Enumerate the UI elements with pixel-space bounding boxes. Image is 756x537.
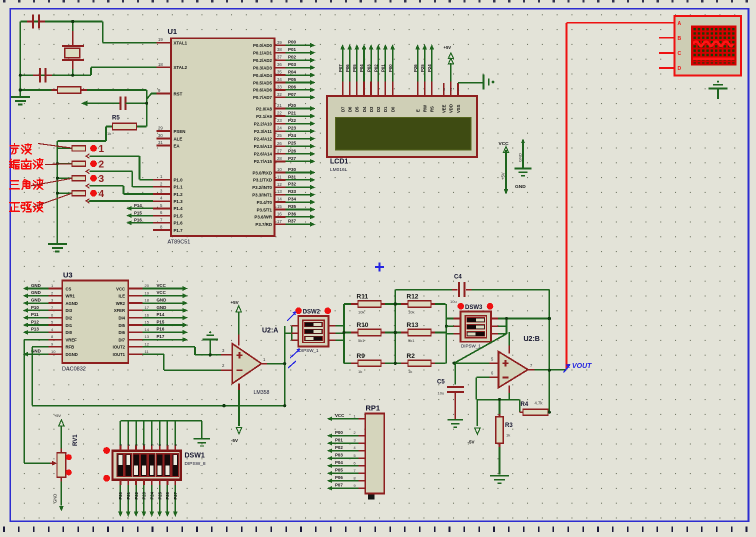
svg-text:C5: C5 bbox=[437, 380, 445, 386]
svg-text:13: 13 bbox=[277, 189, 282, 194]
svg-text:EA: EA bbox=[174, 143, 181, 148]
svg-text:P1.1: P1.1 bbox=[174, 185, 184, 190]
svg-text:+5V: +5V bbox=[231, 300, 239, 305]
svg-text:15: 15 bbox=[145, 320, 150, 325]
svg-text:P06: P06 bbox=[335, 475, 343, 480]
svg-text:AGND: AGND bbox=[66, 301, 78, 306]
svg-text:P2.4/A12: P2.4/A12 bbox=[254, 137, 273, 142]
svg-text:VCC: VCC bbox=[335, 413, 345, 418]
svg-text:P3.6/WR: P3.6/WR bbox=[254, 215, 272, 220]
svg-text:10: 10 bbox=[51, 349, 56, 354]
svg-text:U2:A: U2:A bbox=[262, 328, 278, 335]
svg-text:DSW3: DSW3 bbox=[465, 305, 483, 311]
svg-text:3: 3 bbox=[135, 444, 139, 446]
svg-text:39: 39 bbox=[277, 40, 282, 45]
svg-text:D: D bbox=[678, 66, 682, 72]
svg-text:10k: 10k bbox=[358, 310, 364, 315]
svg-text:P22: P22 bbox=[134, 491, 139, 499]
svg-text:12: 12 bbox=[277, 182, 282, 187]
svg-text:D7: D7 bbox=[340, 106, 345, 112]
svg-text:VCC: VCC bbox=[116, 286, 125, 291]
svg-text:6: 6 bbox=[158, 444, 162, 446]
svg-text:1k: 1k bbox=[358, 369, 362, 374]
svg-text:VCC: VCC bbox=[157, 290, 167, 295]
svg-text:DI4: DI4 bbox=[118, 316, 125, 321]
svg-text:GND: GND bbox=[31, 298, 41, 303]
svg-text:RS: RS bbox=[430, 106, 435, 112]
svg-text:XTAL2: XTAL2 bbox=[174, 65, 188, 70]
svg-text:16: 16 bbox=[277, 211, 282, 216]
svg-text:P2.6/A14: P2.6/A14 bbox=[254, 152, 273, 157]
svg-text:P15: P15 bbox=[157, 319, 165, 324]
svg-text:P04: P04 bbox=[359, 64, 364, 72]
svg-text:WR2: WR2 bbox=[116, 301, 126, 306]
svg-text:13: 13 bbox=[145, 334, 150, 339]
svg-text:8: 8 bbox=[354, 476, 356, 480]
svg-text:P10: P10 bbox=[31, 305, 39, 310]
svg-text:P02: P02 bbox=[335, 445, 343, 450]
svg-text:24: 24 bbox=[277, 126, 282, 131]
svg-text:P2.1/A9: P2.1/A9 bbox=[256, 114, 272, 119]
svg-text:P16: P16 bbox=[157, 327, 165, 332]
svg-text:DIPSW_1: DIPSW_1 bbox=[299, 348, 319, 353]
svg-text:P15: P15 bbox=[134, 210, 142, 215]
svg-text:DSW1: DSW1 bbox=[185, 453, 205, 460]
svg-text:GND: GND bbox=[157, 298, 167, 303]
svg-text:P04: P04 bbox=[335, 460, 343, 465]
svg-text:14: 14 bbox=[277, 197, 282, 202]
svg-text:R10: R10 bbox=[357, 322, 369, 329]
svg-text:P02: P02 bbox=[288, 55, 297, 60]
svg-text:P3.4/T0: P3.4/T0 bbox=[257, 200, 273, 205]
svg-text:R9: R9 bbox=[357, 353, 366, 360]
svg-text:R2: R2 bbox=[407, 353, 416, 360]
svg-text:P3.0/RXD: P3.0/RXD bbox=[252, 170, 272, 175]
svg-text:A: A bbox=[678, 21, 682, 27]
svg-text:P13: P13 bbox=[31, 327, 39, 332]
svg-text:P24: P24 bbox=[150, 491, 155, 499]
svg-text:P3.2/INT0: P3.2/INT0 bbox=[252, 185, 272, 190]
svg-text:E: E bbox=[415, 109, 420, 112]
svg-text:P05: P05 bbox=[335, 468, 343, 473]
svg-text:P2.3/A11: P2.3/A11 bbox=[254, 129, 273, 134]
svg-text:B: B bbox=[678, 36, 682, 42]
svg-text:R11: R11 bbox=[357, 294, 369, 301]
svg-text:P26: P26 bbox=[288, 148, 297, 153]
svg-text:P1.4: P1.4 bbox=[174, 206, 184, 211]
svg-text:P0.0/AD0: P0.0/AD0 bbox=[253, 43, 273, 48]
svg-text:DSW2: DSW2 bbox=[303, 309, 321, 315]
svg-text:P3.5/T1: P3.5/T1 bbox=[257, 207, 273, 212]
svg-text:IOUT2: IOUT2 bbox=[113, 345, 126, 350]
svg-text:23: 23 bbox=[277, 118, 282, 123]
svg-text:30: 30 bbox=[158, 133, 163, 138]
svg-text:3: 3 bbox=[354, 439, 356, 443]
svg-text:P30: P30 bbox=[288, 167, 297, 172]
svg-text:DI2: DI2 bbox=[66, 316, 73, 321]
svg-text:DIPSW_8: DIPSW_8 bbox=[185, 461, 206, 467]
svg-text:D2: D2 bbox=[376, 106, 381, 112]
svg-text:7: 7 bbox=[166, 444, 170, 446]
svg-text:1: 1 bbox=[354, 414, 356, 418]
svg-text:35: 35 bbox=[277, 70, 282, 75]
svg-text:VCC: VCC bbox=[499, 141, 510, 147]
svg-text:R3: R3 bbox=[505, 423, 513, 429]
svg-text:4.7k: 4.7k bbox=[535, 401, 544, 406]
svg-text:VCC: VCC bbox=[157, 283, 167, 288]
svg-text:RST: RST bbox=[174, 91, 183, 96]
svg-text:DI6: DI6 bbox=[118, 330, 125, 335]
svg-text:P34: P34 bbox=[288, 197, 297, 202]
svg-text:36: 36 bbox=[277, 62, 282, 67]
svg-text:P2.5/A13: P2.5/A13 bbox=[254, 144, 273, 149]
svg-text:VDD: VDD bbox=[449, 104, 454, 113]
svg-text:P03: P03 bbox=[366, 64, 371, 72]
svg-text:DI7: DI7 bbox=[118, 337, 125, 342]
svg-text:17: 17 bbox=[277, 219, 282, 224]
svg-text:P25: P25 bbox=[288, 141, 297, 146]
svg-text:4: 4 bbox=[143, 444, 147, 446]
svg-text:+5V: +5V bbox=[54, 413, 61, 418]
svg-text:GND: GND bbox=[53, 494, 58, 503]
svg-text:P0.5/AD5: P0.5/AD5 bbox=[253, 80, 273, 85]
svg-text:32: 32 bbox=[277, 92, 282, 97]
svg-text:P0.7/AD7: P0.7/AD7 bbox=[253, 95, 273, 100]
svg-text:GND: GND bbox=[518, 153, 523, 162]
svg-text:D0: D0 bbox=[390, 106, 395, 112]
svg-text:18: 18 bbox=[145, 298, 150, 303]
svg-text:P20: P20 bbox=[118, 491, 123, 499]
svg-text:P14: P14 bbox=[134, 203, 142, 208]
svg-text:20: 20 bbox=[145, 283, 150, 288]
svg-text:D5: D5 bbox=[355, 106, 360, 112]
svg-text:P07: P07 bbox=[338, 64, 343, 72]
svg-text:38: 38 bbox=[277, 47, 282, 52]
svg-text:DI3: DI3 bbox=[66, 308, 73, 313]
svg-text:VEE: VEE bbox=[442, 104, 447, 113]
svg-text:P22: P22 bbox=[288, 118, 297, 123]
svg-text:1: 1 bbox=[119, 444, 123, 446]
svg-text:P20: P20 bbox=[288, 103, 297, 108]
svg-text:C: C bbox=[678, 51, 682, 57]
svg-text:P0.4/AD4: P0.4/AD4 bbox=[253, 73, 273, 78]
svg-text:XFER: XFER bbox=[114, 308, 125, 313]
svg-text:1k: 1k bbox=[408, 369, 412, 374]
svg-text:VOUT: VOUT bbox=[572, 363, 592, 370]
svg-text:P26: P26 bbox=[165, 491, 170, 499]
svg-text:CS: CS bbox=[66, 286, 72, 291]
svg-text:C4: C4 bbox=[454, 275, 462, 281]
svg-text:-5V: -5V bbox=[231, 438, 238, 443]
svg-text:27: 27 bbox=[277, 148, 282, 153]
svg-text:P32: P32 bbox=[288, 182, 297, 187]
svg-text:DGND: DGND bbox=[66, 352, 78, 357]
svg-text:1: 1 bbox=[458, 88, 460, 92]
svg-text:2: 2 bbox=[354, 431, 356, 435]
svg-text:P23: P23 bbox=[288, 126, 297, 131]
svg-text:GND: GND bbox=[31, 290, 41, 295]
svg-text:12: 12 bbox=[145, 342, 150, 347]
svg-text:31: 31 bbox=[158, 140, 163, 145]
svg-text:R12: R12 bbox=[407, 294, 419, 301]
svg-text:U1: U1 bbox=[168, 27, 178, 36]
svg-text:P02: P02 bbox=[374, 64, 379, 72]
svg-text:15: 15 bbox=[277, 204, 282, 209]
svg-text:P27: P27 bbox=[173, 491, 178, 499]
svg-text:P2.7/A15: P2.7/A15 bbox=[254, 159, 273, 164]
svg-text:P26: P26 bbox=[413, 64, 418, 72]
svg-text:P3.7/RD: P3.7/RD bbox=[255, 222, 272, 227]
svg-text:D3: D3 bbox=[369, 106, 374, 112]
svg-text:P23: P23 bbox=[142, 491, 147, 499]
svg-text:U3: U3 bbox=[63, 271, 73, 280]
svg-text:P11: P11 bbox=[31, 312, 39, 317]
svg-text:AT89C51: AT89C51 bbox=[168, 240, 191, 246]
svg-text:2: 2 bbox=[450, 88, 452, 92]
svg-text:2: 2 bbox=[127, 444, 131, 446]
svg-text:P03: P03 bbox=[288, 62, 297, 67]
svg-text:P27: P27 bbox=[288, 156, 297, 161]
svg-text:P21: P21 bbox=[288, 111, 297, 116]
svg-text:P06: P06 bbox=[345, 64, 350, 72]
svg-text:P24: P24 bbox=[427, 64, 432, 72]
svg-text:P1.7: P1.7 bbox=[174, 228, 184, 233]
svg-text:37: 37 bbox=[277, 55, 282, 60]
svg-text:P00: P00 bbox=[288, 40, 297, 45]
svg-text:P06: P06 bbox=[288, 84, 297, 89]
svg-text:P00: P00 bbox=[335, 430, 343, 435]
svg-text:P14: P14 bbox=[157, 312, 165, 317]
svg-text:17: 17 bbox=[145, 305, 150, 310]
svg-text:22: 22 bbox=[277, 111, 282, 116]
svg-text:34: 34 bbox=[277, 77, 282, 82]
svg-text:P0.3/AD3: P0.3/AD3 bbox=[253, 65, 273, 70]
svg-text:10u: 10u bbox=[450, 299, 457, 304]
svg-text:P01: P01 bbox=[381, 64, 386, 72]
svg-text:DI1: DI1 bbox=[66, 323, 73, 328]
svg-text:4: 4 bbox=[99, 189, 105, 200]
svg-text:P0.2/AD2: P0.2/AD2 bbox=[253, 58, 273, 63]
svg-text:9: 9 bbox=[354, 484, 356, 488]
svg-text:P1.0: P1.0 bbox=[174, 177, 184, 182]
svg-text:P05: P05 bbox=[288, 77, 297, 82]
svg-text:P01: P01 bbox=[288, 47, 297, 52]
svg-text:2: 2 bbox=[99, 160, 105, 171]
svg-text:P1.5: P1.5 bbox=[174, 213, 184, 218]
svg-text:3: 3 bbox=[99, 174, 105, 185]
svg-text:P35: P35 bbox=[288, 204, 297, 209]
svg-text:P1.3: P1.3 bbox=[174, 199, 184, 204]
svg-text:5: 5 bbox=[354, 454, 356, 458]
svg-text:26: 26 bbox=[277, 141, 282, 146]
svg-text:P01: P01 bbox=[335, 437, 343, 442]
svg-text:14: 14 bbox=[145, 327, 150, 332]
svg-text:5k1: 5k1 bbox=[408, 338, 415, 343]
svg-text:P25: P25 bbox=[157, 491, 162, 499]
svg-text:P33: P33 bbox=[288, 189, 297, 194]
svg-text:29: 29 bbox=[158, 126, 163, 131]
svg-text:P31: P31 bbox=[288, 174, 297, 179]
svg-text:P21: P21 bbox=[126, 491, 131, 499]
svg-text:P16: P16 bbox=[134, 218, 142, 223]
svg-text:3: 3 bbox=[443, 88, 445, 92]
svg-text:P05: P05 bbox=[352, 64, 357, 72]
svg-text:VREF: VREF bbox=[66, 337, 78, 342]
svg-text:6: 6 bbox=[354, 461, 356, 465]
svg-text:LM016L: LM016L bbox=[330, 167, 348, 173]
svg-text:P1.2: P1.2 bbox=[174, 192, 184, 197]
svg-text:GND: GND bbox=[31, 283, 41, 288]
svg-text:25: 25 bbox=[277, 133, 282, 138]
svg-text:GND: GND bbox=[515, 184, 526, 190]
svg-text:1k: 1k bbox=[107, 131, 111, 136]
svg-text:P24: P24 bbox=[288, 133, 297, 138]
svg-text:WR1: WR1 bbox=[66, 294, 76, 299]
svg-text:D1: D1 bbox=[383, 106, 388, 112]
svg-text:1k: 1k bbox=[506, 433, 510, 438]
svg-text:28: 28 bbox=[277, 156, 282, 161]
svg-text:21: 21 bbox=[277, 103, 282, 108]
svg-text:U2:B: U2:B bbox=[524, 336, 540, 343]
svg-text:P2.0/A8: P2.0/A8 bbox=[256, 106, 272, 111]
svg-text:P0.1/AD1: P0.1/AD1 bbox=[253, 51, 273, 56]
svg-text:8: 8 bbox=[174, 444, 178, 446]
svg-text:P17: P17 bbox=[157, 334, 165, 339]
svg-text:RP1: RP1 bbox=[366, 404, 381, 413]
svg-text:PSEN: PSEN bbox=[174, 129, 186, 134]
svg-text:RV1: RV1 bbox=[73, 434, 79, 446]
svg-text:P2.2/A10: P2.2/A10 bbox=[254, 121, 273, 126]
svg-text:VSS: VSS bbox=[456, 104, 461, 113]
svg-text:7: 7 bbox=[354, 469, 356, 473]
svg-text:RW: RW bbox=[423, 105, 428, 112]
svg-text:P3.3/INT1: P3.3/INT1 bbox=[252, 193, 272, 198]
svg-text:ILE: ILE bbox=[118, 294, 125, 299]
svg-text:19: 19 bbox=[145, 290, 150, 295]
svg-text:P25: P25 bbox=[420, 64, 425, 72]
svg-text:5k1: 5k1 bbox=[358, 338, 365, 343]
svg-text:P1.6: P1.6 bbox=[174, 221, 184, 226]
svg-text:DI5: DI5 bbox=[118, 323, 125, 328]
svg-text:10k: 10k bbox=[408, 310, 414, 315]
svg-text:5: 5 bbox=[150, 444, 154, 446]
svg-text:+5V: +5V bbox=[444, 45, 452, 50]
svg-text:DAC0832: DAC0832 bbox=[62, 367, 86, 373]
svg-text:33: 33 bbox=[277, 84, 282, 89]
svg-text:DI0: DI0 bbox=[66, 330, 73, 335]
svg-text:DIPSW_1: DIPSW_1 bbox=[461, 343, 481, 348]
svg-text:P03: P03 bbox=[335, 453, 343, 458]
svg-text:R4: R4 bbox=[521, 402, 529, 408]
svg-text:GND: GND bbox=[157, 305, 167, 310]
svg-text:16: 16 bbox=[145, 312, 150, 317]
svg-text:1: 1 bbox=[99, 144, 105, 155]
svg-text:XTAL1: XTAL1 bbox=[174, 41, 188, 46]
svg-text:P04: P04 bbox=[288, 70, 297, 75]
svg-text:4: 4 bbox=[354, 446, 356, 450]
svg-text:P0.6/AD6: P0.6/AD6 bbox=[253, 88, 273, 93]
svg-text:LM358: LM358 bbox=[254, 390, 270, 396]
svg-text:P12: P12 bbox=[31, 319, 39, 324]
svg-text:P07: P07 bbox=[335, 483, 343, 488]
svg-text:IOUT1: IOUT1 bbox=[113, 352, 126, 357]
svg-text:P07: P07 bbox=[288, 92, 297, 97]
svg-text:P36: P36 bbox=[288, 211, 297, 216]
svg-text:-5V: -5V bbox=[468, 440, 475, 445]
svg-text:ALE: ALE bbox=[174, 136, 183, 141]
svg-text:P3.1/TXD: P3.1/TXD bbox=[253, 178, 272, 183]
svg-text:P00: P00 bbox=[388, 64, 393, 72]
svg-text:R13: R13 bbox=[407, 322, 419, 329]
svg-text:10: 10 bbox=[277, 167, 282, 172]
svg-text:D4: D4 bbox=[362, 106, 367, 112]
svg-text:11: 11 bbox=[277, 174, 282, 179]
svg-text:P37: P37 bbox=[288, 219, 297, 224]
svg-text:18: 18 bbox=[158, 62, 163, 67]
svg-text:RFB: RFB bbox=[66, 345, 75, 350]
svg-text:+5V: +5V bbox=[501, 172, 506, 180]
svg-text:19: 19 bbox=[158, 37, 163, 42]
svg-text:R5: R5 bbox=[112, 116, 120, 122]
svg-text:LCD1: LCD1 bbox=[330, 159, 348, 166]
svg-text:10u: 10u bbox=[438, 391, 445, 396]
svg-text:D6: D6 bbox=[348, 106, 353, 112]
